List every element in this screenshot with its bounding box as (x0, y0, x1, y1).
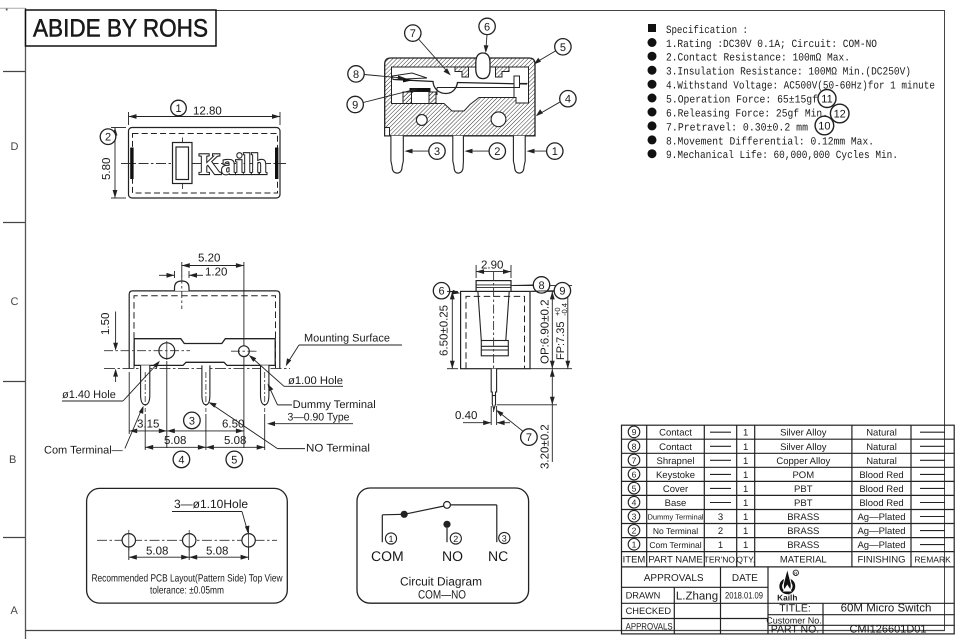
balloon 8 (side) (513, 277, 550, 293)
svg-text:9: 9 (352, 100, 358, 112)
pcb centerline (97, 539, 277, 541)
svg-text:6: 6 (484, 21, 490, 33)
svg-text:NO: NO (442, 548, 463, 564)
balloon 7 (side) (496, 410, 537, 446)
label COM (371, 548, 404, 564)
front com terminal (141, 365, 150, 404)
dimension 0.40 (463, 406, 510, 425)
svg-text:Silver Alloy: Silver Alloy (780, 442, 827, 453)
label NO (442, 548, 463, 564)
svg-text:Natural: Natural (866, 428, 897, 439)
section cavity (392, 67, 529, 111)
balloon 11 (818, 90, 836, 108)
balloon 3 (circuit) (499, 532, 510, 543)
label 1.40 hole (62, 361, 160, 401)
table row 6 (628, 468, 945, 481)
svg-text:Com Terminal: Com Terminal (649, 540, 701, 550)
svg-text:ABIDE BY ROHS: ABIDE BY ROHS (33, 15, 208, 43)
dimension 5.08 right label (224, 435, 246, 447)
spec header (648, 24, 748, 37)
svg-text:4.Withstand Voltage: AC500V(50: 4.Withstand Voltage: AC500V(50-60Hz)for … (666, 81, 935, 93)
svg-text:11: 11 (821, 94, 832, 106)
dimension 5.20 (182, 262, 244, 346)
spec line 9 (648, 149, 899, 162)
svg-text:4: 4 (178, 454, 184, 466)
balloon 4 (section) (536, 91, 576, 117)
svg-text:BRASS: BRASS (787, 526, 819, 537)
svg-text:5.08: 5.08 (224, 435, 246, 447)
top view body (129, 128, 281, 199)
front button bump (175, 281, 190, 291)
front button centerline (181, 277, 183, 310)
dimension 5.08 right (206, 414, 265, 450)
top view centerline horizontal (121, 163, 286, 165)
svg-text:8: 8 (353, 69, 359, 81)
balloon 8 (section) (348, 66, 406, 82)
dimension 1.20 (159, 271, 203, 278)
svg-text:REMARK: REMARK (914, 554, 951, 564)
svg-text:2: 2 (632, 526, 637, 536)
svg-text:1: 1 (743, 470, 748, 481)
table row 4 (628, 496, 945, 509)
dimension 5.20 label (198, 253, 220, 265)
svg-text:5: 5 (560, 42, 566, 54)
svg-text:5.08: 5.08 (206, 546, 228, 558)
section NC contact riser (514, 76, 528, 88)
svg-text:8.Movement Differential: 0.12m: 8.Movement Differential: 0.12mm Max. (666, 136, 874, 148)
balloon 9 (section) (347, 89, 419, 113)
svg-text:3: 3 (434, 146, 440, 158)
front dummy terminal (261, 365, 269, 404)
svg-text:QTY.: QTY. (736, 554, 755, 564)
svg-text:Natural: Natural (866, 456, 897, 467)
balloon 1 (section) (527, 143, 564, 159)
svg-text:1: 1 (743, 498, 748, 509)
svg-text:6.50±0.25: 6.50±0.25 (439, 305, 451, 356)
title box ABIDE BY ROHS (26, 10, 217, 46)
svg-text:3.20±0.2: 3.20±0.2 (540, 424, 552, 469)
label dummy terminal (268, 384, 376, 412)
dimension 5.80 (111, 128, 126, 199)
svg-text:60M Micro Switch: 60M Micro Switch (841, 603, 932, 615)
node pivot (444, 502, 451, 509)
dimension 6.50 side label (439, 305, 451, 356)
section keystroke button 6 (476, 53, 490, 79)
svg-text:5: 5 (231, 454, 237, 466)
section base hole right (491, 112, 506, 127)
svg-text:DATE: DATE (732, 573, 758, 584)
table row 2 (628, 525, 945, 538)
section body hatched (385, 58, 535, 136)
svg-text:TITLE:: TITLE: (779, 602, 811, 614)
circuit caption line 1 (400, 575, 482, 589)
svg-text:1: 1 (388, 534, 393, 544)
svg-text:No Terminal: No Terminal (653, 526, 698, 536)
zone letter B (9, 454, 16, 466)
svg-text:Ag—Plated: Ag—Plated (857, 540, 905, 551)
svg-text:1: 1 (718, 540, 723, 551)
section right pin 1 (513, 136, 525, 173)
Kailh logo text (199, 148, 267, 181)
table grid (622, 425, 955, 634)
svg-text:CMI126601D01: CMI126601D01 (849, 624, 926, 636)
svg-text:Shrapnel: Shrapnel (656, 456, 694, 467)
spec line 3 (648, 66, 912, 79)
pcb hole right (242, 530, 255, 551)
circuit box (357, 488, 529, 603)
zone letter A (11, 605, 19, 617)
svg-text:Keystoke: Keystoke (656, 470, 695, 481)
frame bottom border (25, 630, 945, 632)
svg-text:1: 1 (743, 484, 748, 495)
svg-text:Recommended PCB Layout(Pattern: Recommended PCB Layout(Pattern Side) Top… (92, 573, 283, 585)
front plate (134, 339, 275, 366)
node NO contact (443, 521, 450, 528)
dimension 3.20 (497, 369, 557, 462)
spec line 1 (648, 38, 878, 51)
pcb dim 5.08 left (129, 547, 189, 560)
dimension 2.90 label (481, 260, 503, 272)
svg-text:3: 3 (502, 534, 507, 544)
svg-text:tolerance: ±0.05mm: tolerance: ±0.05mm (150, 585, 224, 597)
dimension FP label (553, 303, 569, 360)
svg-text:2: 2 (453, 534, 458, 544)
pcb dim 5.08 right label (206, 546, 228, 558)
pcb dim 5.08 right (189, 547, 248, 560)
balloon 6 (section) (479, 18, 495, 53)
svg-text:4: 4 (632, 498, 637, 508)
svg-text:5.08: 5.08 (146, 546, 168, 558)
dimension FP (565, 286, 570, 369)
svg-text:0.40: 0.40 (455, 410, 477, 422)
svg-text:1: 1 (743, 526, 748, 537)
dimension 5.08 left (145, 414, 206, 450)
svg-text:Dummy Terminal: Dummy Terminal (293, 399, 376, 411)
balloon 1 (top view) (171, 100, 187, 116)
svg-text:2.Contact Resistance: 100mΩ Ma: 2.Contact Resistance: 100mΩ Max. (666, 53, 850, 65)
svg-text:3: 3 (189, 415, 195, 427)
svg-text:1: 1 (552, 146, 558, 158)
balloon 10 (815, 116, 834, 135)
svg-text:PBT: PBT (794, 484, 813, 495)
corner mark (6, 9, 8, 11)
dimension OP (511, 286, 572, 369)
pcb hole left (122, 530, 135, 551)
svg-text:9.Mechanical Life: 60,000,000: 9.Mechanical Life: 60,000,000 Cycles Min… (666, 150, 898, 162)
svg-text:-0.4: -0.4 (560, 303, 569, 316)
svg-text:3—ø1.10Hole: 3—ø1.10Hole (174, 497, 248, 511)
svg-text:5.08: 5.08 (164, 435, 186, 447)
svg-text:7: 7 (632, 455, 637, 465)
section foot notch (385, 128, 390, 136)
svg-text:1: 1 (632, 540, 637, 550)
svg-text:Natural: Natural (866, 442, 897, 453)
svg-text:3.Insulation Resistance: 100MΩ: 3.Insulation Resistance: 100MΩ Min.(DC25… (666, 67, 911, 79)
svg-text:9: 9 (559, 286, 565, 298)
svg-text:Mounting Surface: Mounting Surface (304, 333, 390, 345)
dimension 12.80 label (193, 106, 222, 118)
svg-text:6: 6 (438, 286, 444, 298)
svg-text:Contact: Contact (659, 428, 692, 439)
frame top border (216, 10, 945, 12)
section button seat right (496, 67, 510, 77)
svg-text:1: 1 (743, 428, 748, 439)
svg-text:7: 7 (526, 432, 532, 444)
balloon 5 (front) (226, 451, 243, 468)
table approvals header (644, 573, 758, 584)
dimension 3.20 label (540, 424, 552, 469)
label NC (488, 548, 508, 564)
svg-text:Circuit Diagram: Circuit Diagram (400, 575, 482, 589)
svg-text:1.20: 1.20 (205, 267, 227, 279)
svg-text:8: 8 (632, 441, 637, 451)
dimension 1.50 label (100, 313, 112, 335)
svg-text:Specification :: Specification : (666, 25, 748, 37)
top view left clip (130, 148, 133, 180)
svg-text:POM: POM (792, 470, 814, 481)
svg-text:B: B (9, 454, 16, 466)
section middle pin 2 (453, 136, 464, 173)
kailh logo emblem (781, 569, 799, 593)
section contact block 9 (410, 88, 431, 104)
table row 3 (628, 510, 945, 523)
section lever block (437, 88, 514, 98)
frame left border (25, 8, 27, 639)
dimension 6.50 (167, 357, 244, 448)
svg-text:Base: Base (665, 498, 687, 509)
zone ticks (0, 8, 25, 537)
svg-text:1: 1 (743, 442, 748, 453)
svg-text:7.Pretravel: 0.30±0.2 mm: 7.Pretravel: 0.30±0.2 mm (666, 122, 808, 134)
table approvals row (626, 622, 673, 632)
svg-text:5.20: 5.20 (198, 253, 220, 265)
circuit caption line 2 (418, 588, 466, 602)
svg-text:FP:7.35: FP:7.35 (555, 321, 567, 360)
svg-text:3—0.90 Type: 3—0.90 Type (288, 411, 350, 423)
svg-text:BRASS: BRASS (787, 512, 819, 523)
svg-text:APPROVALS: APPROVALS (644, 573, 704, 584)
zone letter D (11, 141, 19, 153)
front body (129, 291, 280, 369)
svg-text:ø1.00 Hole: ø1.00 Hole (288, 375, 343, 387)
dimension 1.50 (113, 312, 118, 383)
svg-text:APPROVALS: APPROVALS (626, 622, 673, 632)
customer no cell (766, 615, 822, 625)
zone letter C (11, 296, 19, 308)
section pocket wall left (403, 92, 412, 104)
svg-text:9: 9 (632, 427, 637, 437)
svg-text:NC: NC (488, 548, 508, 564)
svg-text:5.80: 5.80 (101, 158, 113, 180)
svg-text:PBT: PBT (794, 498, 813, 509)
table header row (623, 554, 951, 565)
svg-text:Dummy Terminal: Dummy Terminal (647, 513, 703, 522)
table bottom block grid (622, 567, 955, 634)
frame right border (944, 10, 946, 631)
balloon 3 (front) (184, 412, 201, 429)
side button cap (476, 281, 511, 292)
front dummy terminal centerline (264, 372, 266, 412)
svg-text:FINISHING: FINISHING (857, 554, 905, 565)
svg-text:ITEM: ITEM (623, 554, 646, 565)
table checked row (626, 606, 672, 616)
label 1.00 hole (249, 355, 343, 387)
balloon 6 (side) (433, 283, 460, 299)
svg-text:DRAWN: DRAWN (626, 591, 661, 601)
svg-text:COM: COM (371, 548, 404, 564)
label no terminal (209, 402, 371, 454)
section left pin 3 (391, 136, 403, 173)
front com terminal centerline (144, 372, 146, 412)
balloon 3 (section) (405, 143, 446, 159)
dimension 5.80 label (101, 158, 113, 180)
svg-text:12.80: 12.80 (193, 106, 222, 118)
svg-text:L.Zhang: L.Zhang (676, 590, 718, 602)
svg-text:PART NO.: PART NO. (771, 623, 819, 635)
table row 9 (628, 426, 945, 439)
spec line 6 (648, 108, 829, 121)
top view centerline vertical (182, 138, 184, 190)
svg-text:1: 1 (175, 103, 181, 115)
top view right clip (275, 148, 278, 180)
svg-text:1: 1 (743, 456, 748, 467)
svg-text:Com Terminal—: Com Terminal— (44, 445, 123, 457)
front no terminal centerline (205, 372, 207, 412)
side pin (491, 369, 496, 410)
dimension 5.08 left label (164, 435, 186, 447)
pcb caption line 2 (150, 585, 224, 597)
wire NC lead (450, 505, 496, 542)
svg-text:Cover: Cover (663, 484, 688, 495)
svg-text:OP:6.90±0.2: OP:6.90±0.2 (540, 300, 552, 365)
balloon 5 (section) (534, 39, 571, 65)
svg-text:TER'NO.: TER'NO. (704, 554, 738, 564)
dimension 12.80 (129, 112, 281, 125)
spec line 5 (648, 94, 819, 107)
svg-text:3: 3 (718, 512, 723, 523)
mounting surface line (104, 368, 290, 370)
spec line 7 (648, 121, 809, 134)
label 3-0.90 type (267, 411, 353, 426)
wire NO lead (446, 528, 448, 542)
svg-text:1.50: 1.50 (100, 313, 112, 335)
svg-text:2: 2 (494, 146, 500, 158)
svg-text:NO Terminal: NO Terminal (306, 443, 370, 455)
pcb box (87, 488, 288, 603)
svg-text:2: 2 (718, 526, 723, 537)
dimension 3.15 (129, 361, 167, 448)
svg-text:Blood Red: Blood Red (859, 498, 903, 509)
table row 1 (628, 539, 945, 552)
svg-text:Contact: Contact (659, 442, 692, 453)
dimension 0.40 label (455, 410, 477, 422)
dimension 6.50 label (222, 419, 244, 431)
spec line 8 (648, 135, 875, 148)
pcb hole middle (183, 530, 196, 551)
section pocket wall right (429, 92, 436, 104)
balloon 7 (section) (405, 25, 451, 76)
svg-text:6.50: 6.50 (222, 419, 244, 431)
pcb hole label (172, 497, 249, 534)
svg-text:6.Releasing Force: 25gf Min.: 6.Releasing Force: 25gf Min. (666, 109, 828, 121)
svg-text:Ag—Plated: Ag—Plated (857, 512, 905, 523)
front hole 1.40 (104, 341, 190, 360)
svg-text:12: 12 (834, 109, 846, 121)
svg-text:Kailh: Kailh (777, 593, 797, 603)
svg-text:Silver Alloy: Silver Alloy (780, 428, 827, 439)
dimension 3.15 label (137, 419, 159, 431)
table drawn row (626, 590, 763, 602)
label com terminal (44, 406, 144, 457)
svg-text:ø1.40 Hole: ø1.40 Hole (62, 389, 116, 401)
spec line 4 (648, 80, 936, 93)
node COM contact (401, 511, 408, 518)
dimension 1.20 label (205, 267, 227, 279)
section contact 8 flap (393, 73, 428, 82)
side centerline (493, 272, 495, 413)
svg-text:6: 6 (632, 469, 637, 479)
front no terminal (202, 365, 210, 404)
balloon 2 (section) (465, 143, 506, 159)
balloon 4 (front) (173, 451, 190, 468)
svg-text:CHECKED: CHECKED (626, 606, 672, 616)
svg-text:1: 1 (743, 540, 748, 551)
svg-text:3: 3 (632, 512, 637, 522)
svg-text:COM—NO: COM—NO (418, 588, 466, 602)
table row 5 (628, 482, 945, 495)
svg-text:8: 8 (538, 280, 544, 292)
svg-text:PART NAME: PART NAME (648, 554, 702, 565)
title cell (779, 602, 931, 614)
svg-text:2: 2 (105, 132, 111, 144)
balloon 9 (side) (531, 283, 571, 299)
spec line 2 (648, 52, 851, 65)
balloon 12 (830, 104, 849, 123)
svg-text:Ag—Plated: Ag—Plated (857, 526, 905, 537)
svg-text:10: 10 (818, 121, 830, 133)
svg-text:5.Operation Force: 65±15gf: 5.Operation Force: 65±15gf (666, 95, 818, 107)
svg-text:Blood Red: Blood Red (859, 470, 903, 481)
svg-text:Kailh: Kailh (199, 148, 267, 181)
svg-text:Copper Alloy: Copper Alloy (776, 456, 830, 467)
svg-text:A: A (11, 605, 19, 617)
svg-text:D: D (11, 141, 19, 153)
dimension OP label (540, 300, 552, 365)
pcb dim 5.08 left label (146, 546, 168, 558)
svg-text:7: 7 (410, 28, 416, 40)
svg-text:1: 1 (743, 512, 748, 523)
side plunger (478, 291, 509, 355)
table row 7 (628, 454, 945, 467)
balloon 2 (top view) (100, 129, 116, 145)
side body (461, 291, 530, 368)
wire COM lead (382, 514, 404, 542)
section button seat left (455, 67, 469, 77)
balloon 1 (circuit) (385, 533, 396, 544)
front hole 1.00 (231, 346, 257, 357)
dimension 2.90 (476, 265, 511, 278)
kailh logo text (777, 593, 797, 603)
svg-text:5: 5 (632, 483, 637, 493)
svg-text:BRASS: BRASS (787, 540, 819, 551)
section base hole left (416, 115, 427, 126)
pcb caption line 1 (92, 573, 283, 585)
balloon 2 (circuit) (450, 533, 461, 544)
svg-text:Blood Red: Blood Red (859, 484, 903, 495)
wire switch blade (404, 506, 444, 514)
dimension 6.50 side (447, 291, 458, 368)
table row 8 (628, 440, 945, 453)
